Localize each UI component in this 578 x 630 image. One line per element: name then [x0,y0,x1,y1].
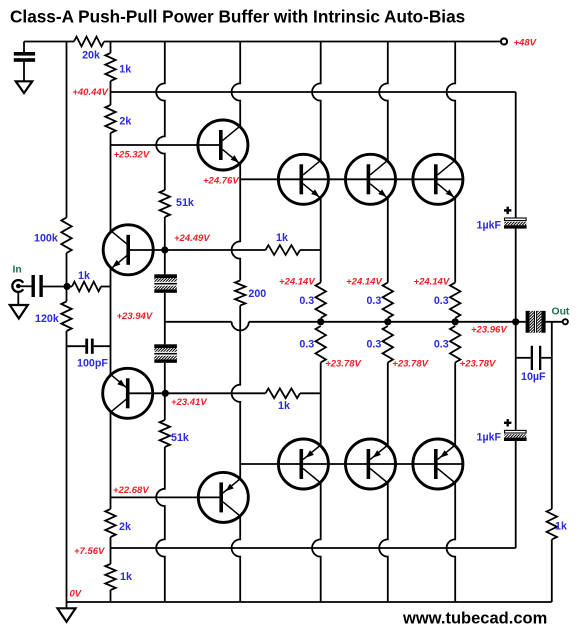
label +23.78V 2 [392,359,428,370]
footer www.tubecad.com [402,609,547,627]
battery bias upper [154,274,177,293]
wire QP3 collector to 0V rail [447,482,456,602]
label 2k top [119,116,131,128]
wire 40V rail to 2k [110,92,112,105]
svg-text:51k: 51k [171,432,189,444]
wire 1uF to output rail to 1uF lower [515,229,517,430]
wire QP1 emitter [320,363,322,447]
resistor 20k (series feed in top rail) [74,37,104,47]
label +7.56V [74,546,105,557]
ground (bottom rail) [58,602,76,622]
transistor QN2 output NPN [346,154,396,204]
svg-text:51k: 51k [176,197,194,209]
resistor 0.3 lower 2 [383,326,393,363]
label 1k right [555,521,567,533]
transistor QN3 output NPN [413,154,463,204]
svg-text:Class-A Push-Pull Power Buffer: Class-A Push-Pull Power Buffer with Intr… [10,7,465,27]
label 1k bottom divider [120,571,132,583]
wire divider top [110,42,112,54]
resistor 0.3 upper 1 [316,283,326,319]
svg-text:2k: 2k [119,116,131,128]
label In [13,265,22,276]
wire jack to coupling cap [20,285,31,287]
label 1k divider top [119,64,131,76]
wire +22.68V rail (to Q4 base) [111,496,222,498]
wire Q2 collector to top rail (hops 40V rail) [232,42,241,127]
transistor QP2 output PNP [346,439,396,489]
resistor 1k (input stopper) [67,282,111,292]
svg-text:1µkF: 1µkF [477,432,502,444]
transistor QN1 output NPN [278,154,328,204]
wire QP3 emitter [454,363,456,447]
wire 100k to input node [66,253,68,287]
wire QN3 collector to +48V rail [447,42,456,162]
wire right column (Out to 1k) [551,322,553,509]
transistor QP3 output PNP [413,439,463,489]
terminal Out [563,319,568,324]
svg-text:200: 200 [248,288,266,300]
transistor Q3 driver PNP [103,368,153,418]
wire battery 1 to battery 2 [164,293,166,345]
svg-text:20k: 20k [82,50,100,62]
capacitor 100pF [67,339,111,354]
label +24.76V [203,176,239,187]
label 0.3 upper 3 [434,295,449,307]
svg-text:+24.49V: +24.49V [174,233,210,244]
label 1uF lower [477,432,502,444]
label 1k bias upper [276,232,288,244]
wire node to 51k lower [164,393,166,420]
ground (supply filter cap) [16,81,33,93]
wire Q1 collector (25V rail down to Q1) [110,145,112,232]
wire 51k column bottom (hops 22.68V+7.56V rails) [156,447,165,602]
svg-text:2k: 2k [119,521,131,533]
label +23.41V [171,397,207,408]
transistor Q2 driver NPN [198,120,248,170]
wire Q1 emitter down to Q3 emitter [110,268,112,375]
wire Q2 emitter down (base rail T, 200R) [232,163,241,280]
svg-text:+23.78V: +23.78V [460,359,496,370]
node output at bypass column [512,318,519,325]
node output rail 2 [384,318,391,325]
wire QN1 collector to +48V rail [312,42,321,162]
wire 2k to 7.56V rail [110,537,112,564]
resistor 1k (23.41V to PNP emitters) [165,388,320,398]
svg-text:100k: 100k [34,233,58,245]
svg-text:www.tubecad.com: www.tubecad.com [402,609,547,627]
label +24.49V [174,233,210,244]
wire QP1 collector to 0V rail [312,482,321,602]
node output rail 3 [452,318,459,325]
label 2k bottom [119,521,131,533]
wire 40V rail corner down to 1uF cap [515,92,517,218]
resistor 0.3 lower 3 [450,326,460,363]
svg-text:120k: 120k [35,313,59,325]
transistor QP1 output PNP [278,439,328,489]
svg-text:1k: 1k [120,571,132,583]
resistor 51k lower [160,420,170,447]
label 100pF [77,358,108,370]
resistor 1k (24.49V to NPN emitters) [165,245,321,255]
capacitor 10uF [516,346,552,370]
svg-text:+23.96V: +23.96V [471,325,507,336]
svg-text:+7.56V: +7.56V [74,546,105,557]
svg-text:0.3: 0.3 [299,295,314,307]
terminal In jack [12,280,23,292]
label 51k upper [176,197,194,209]
wire +40.44V rail [111,91,516,93]
resistor 200 [235,280,245,305]
label 0.3 lower 3 [434,339,449,351]
wire +48V top rail [24,41,501,43]
label Out [552,307,570,318]
svg-text:In: In [13,265,22,276]
wire QN2 emitter [387,197,389,282]
svg-text:+24.14V: +24.14V [279,277,315,288]
label 0.3 lower 2 [366,339,381,351]
label 0.3 lower 1 [299,339,314,351]
wire node to battery 1 [164,250,166,274]
resistor 0.3 upper 2 [383,283,393,319]
svg-text:+24.14V: +24.14V [414,277,450,288]
wire NPN base rail [240,178,463,180]
wire QN1 emitter [320,197,322,282]
wire PNP base rail [240,463,463,465]
wire 1k to 40V rail [110,81,112,92]
label +23.96V [471,325,507,336]
wire Q3 collector down (22.68V rail, divider) [110,411,112,509]
wire 51k to node +24.49V [164,217,166,250]
svg-text:1k: 1k [119,64,131,76]
svg-text:10µF: 10µF [521,371,546,383]
svg-text:+23.78V: +23.78V [325,359,361,370]
label +24.14V 2 [346,277,382,288]
svg-text:+23.94V: +23.94V [117,311,153,322]
svg-text:0.3: 0.3 [366,295,381,307]
label 1k bias lower [278,400,290,412]
svg-text:0.3: 0.3 [434,295,449,307]
transistor Q4 driver PNP [198,472,248,522]
label +23.78V 3 [460,359,496,370]
resistor 1k (7.56V to 0V) [105,564,115,590]
node output rail 1 [317,318,324,325]
node input junction [63,283,70,290]
label +23.78V 1 [325,359,361,370]
svg-text:0.3: 0.3 [366,339,381,351]
wire 1k to bottom rail [551,540,553,603]
svg-text:1k: 1k [78,270,90,282]
wire 1uF lower to 7.56V rail corner [515,441,517,548]
svg-text:+22.68V: +22.68V [113,485,149,496]
resistor 51k upper [160,190,170,217]
svg-text:+24.14V: +24.14V [346,277,382,288]
svg-text:1k: 1k [278,400,290,412]
wire 200 down to Q4 emitter (hops 1k line) [232,306,241,480]
wire QN3 emitter [454,197,456,282]
label +25.32V [114,150,150,161]
wire 1k to bottom rail [110,590,112,602]
resistor 1k (output load) [547,509,557,540]
resistor 120k [61,302,71,332]
label +23.94V [117,311,153,322]
resistor 2k (22.68V to 7.56V) [105,509,115,537]
label 100k [34,233,58,245]
label +24.14V 3 [414,277,450,288]
wire input node to 120k [66,287,68,302]
wire left column (top rail to 100k) [66,42,68,218]
wire 51k column top (48V rail, hops 40V+25V rails) [156,42,165,191]
capacitor 1uF lower electrolytic [504,419,527,441]
svg-text:+25.32V: +25.32V [114,150,150,161]
svg-text:1µkF: 1µkF [477,220,502,232]
wire 120k down to bottom rail [66,331,68,602]
svg-text:100pF: 100pF [77,358,108,370]
svg-text:+23.41V: +23.41V [171,397,207,408]
svg-text:+23.78V: +23.78V [392,359,428,370]
wire +7.56V rail [111,547,516,549]
wire QN2 collector to +48V rail [379,42,388,162]
wire Q3 base to node [128,392,166,394]
wire battery 2 to node +23.41V [164,363,166,394]
svg-text:+40.44V: +40.44V [72,87,108,98]
capacitor input coupling [32,275,43,297]
label +40.44V [72,87,108,98]
svg-text:1k: 1k [555,521,567,533]
ground (input jack) [10,292,28,319]
label 200 [248,288,266,300]
svg-text:0.3: 0.3 [434,339,449,351]
wire QP2 emitter [387,363,389,447]
battery bias lower [154,344,177,363]
node +24.49V [161,246,168,253]
label +24.14V 1 [279,277,315,288]
terminal +48V [501,38,507,44]
label +22.68V [113,485,149,496]
wire coupling cap to node [43,286,67,288]
resistor 100k [61,218,71,254]
node +23.41V [162,390,169,397]
wire battery to Out terminal [546,321,563,323]
wire Q4 collector to bottom rail (hops 7.56V rail) [232,516,241,603]
svg-text:Out: Out [552,307,570,318]
wire 2k to 25V rail [110,133,112,145]
transistor Q1 input driver NPN [103,225,153,275]
svg-text:1k: 1k [276,232,288,244]
capacitor 1uF upper electrolytic [504,207,527,229]
label 10uF [521,371,546,383]
resistor 0.3 lower 1 [316,326,326,363]
svg-text:0V: 0V [70,589,82,600]
label 20k [82,50,100,62]
svg-text:+24.76V: +24.76V [203,176,239,187]
label 1k input [78,270,90,282]
svg-text:+48V: +48V [514,38,537,49]
label 0.3 upper 1 [299,295,314,307]
label 0V [70,589,82,600]
label 120k [35,313,59,325]
resistor 2k (40.44V to 25.32V) [105,105,115,133]
wire QP2 collector to 0V rail [379,482,388,602]
resistor 1k (48V to 40.44V) [105,53,115,81]
resistor 0.3 upper 3 [450,283,460,319]
svg-text:0.3: 0.3 [299,339,314,351]
wire output rail (hops under driver column) [165,322,526,331]
label +48V [514,38,537,49]
wire 0V bottom rail [67,601,552,603]
wire +25.32V rail (to Q2 base) [111,144,221,146]
wire Q1 base to node [128,249,165,251]
label 0.3 upper 2 [366,295,381,307]
label 51k lower [171,432,189,444]
label 1uF upper [477,220,502,232]
title text [10,7,465,27]
capacitor supply filter (top left) [14,42,35,82]
battery output offset [526,311,546,333]
